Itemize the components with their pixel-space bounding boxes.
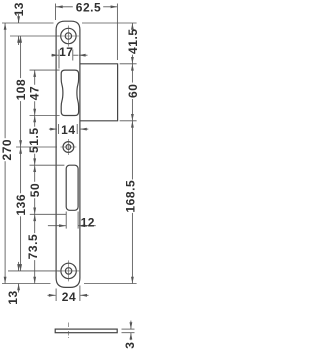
strike plate outline (front view, rounded ends) — [56, 21, 80, 287]
extension lines for 17 dim above latch cutout — [58, 50, 60, 69]
dim 24 (plate width) — [48, 294, 56, 296]
extension line at 50/73.5 junction, to left chain column — [30, 213, 66, 215]
svg-text:47: 47 — [27, 86, 41, 100]
dim 13 bottom (bottom hole to plate bottom) — [18, 262, 20, 271]
dim 41.5 (plate top to box top) — [131, 23, 133, 28]
svg-text:24: 24 — [62, 290, 76, 304]
side view: plate thickness bar — [55, 329, 117, 333]
extension line latch cutout bottom, to left chain column — [30, 115, 60, 117]
dim 73.5 (slot bottom to plate bottom) — [34, 214, 36, 233]
svg-text:14: 14 — [61, 123, 75, 137]
extension line box top, to right dim column — [120, 63, 137, 65]
svg-text:51.5: 51.5 — [27, 127, 41, 153]
svg-text:50: 50 — [28, 183, 42, 197]
svg-text:13: 13 — [12, 2, 26, 16]
dim 12 (deadbolt slot width) — [48, 225, 66, 227]
keeper box attached to right edge of plate — [80, 64, 118, 121]
side view: screw hole centerline — [67, 323, 69, 340]
svg-text:62.5: 62.5 — [76, 1, 102, 15]
svg-text:12: 12 — [81, 216, 95, 230]
svg-text:13: 13 — [6, 290, 20, 304]
screw hole top (countersunk, crosshair) — [61, 28, 76, 43]
dim 47 (latch cutout height) — [34, 70, 36, 85]
svg-text:41.5: 41.5 — [126, 28, 138, 54]
dim 50 (deadbolt slot height) — [34, 165, 36, 182]
svg-text:136: 136 — [14, 194, 28, 216]
dim 270 (overall length) — [4, 23, 6, 138]
extension line plate top, to right dim column (41.5) — [82, 22, 137, 24]
dim 60 (box height) — [131, 64, 133, 83]
dim 62.5 (overall width incl. box) — [56, 6, 73, 8]
extension line latch cutout top, to left chain column — [30, 69, 60, 71]
deadbolt slot opening — [66, 165, 78, 210]
screw hole middle (crosshair) — [63, 142, 74, 153]
dim 136 (hole2 to hole3) — [20, 147, 22, 193]
latch opening (waisted cutout) — [61, 70, 78, 115]
extension lines for 3 dim (side view thickness) — [122, 328, 135, 330]
svg-text:60: 60 — [126, 84, 138, 98]
svg-text:168.5: 168.5 — [124, 180, 138, 213]
svg-text:3: 3 — [123, 342, 137, 349]
screw hole bottom (countersunk, crosshair) — [61, 263, 76, 278]
extension line plate top, to left dim columns — [2, 22, 54, 24]
dim 108 (hole1 to hole2) — [20, 36, 22, 78]
extension lines for 24 dim at plate bottom — [55, 289, 57, 302]
dim 168.5 (box bottom to plate bottom) — [131, 121, 133, 180]
dim 14 — [49, 128, 57, 130]
extension line slot top, to left chain column — [30, 164, 65, 166]
svg-text:17: 17 — [59, 45, 73, 59]
extension line plate bottom (270 ref), left side — [2, 283, 51, 285]
extension line top hole center, to left — [10, 35, 60, 37]
extension line 62.5 left (plate left edge) — [55, 4, 57, 21]
extension lines for 14 dim — [58, 124, 60, 134]
extension line box bottom, to right dim column — [120, 120, 137, 122]
extension line plate bottom (168.5 ref), right side — [84, 283, 137, 285]
dim 13 top (plate top to first hole) — [18, 14, 20, 23]
svg-text:270: 270 — [0, 139, 14, 161]
svg-text:73.5: 73.5 — [26, 234, 40, 260]
extension line bottom hole center, to left — [8, 270, 60, 272]
dim 17 (latch cutout width) — [51, 54, 58, 56]
extension line 62.5 right (box right edge) — [116, 4, 118, 61]
extension line middle hole center, to left — [16, 146, 57, 148]
dim 51.5 (latch cutout bottom to slot top) — [34, 116, 36, 127]
dim 3 (plate thickness, side view) — [130, 321, 132, 330]
svg-text:108: 108 — [14, 79, 28, 101]
extension lines below deadbolt slot for 12 dim — [65, 212, 67, 229]
